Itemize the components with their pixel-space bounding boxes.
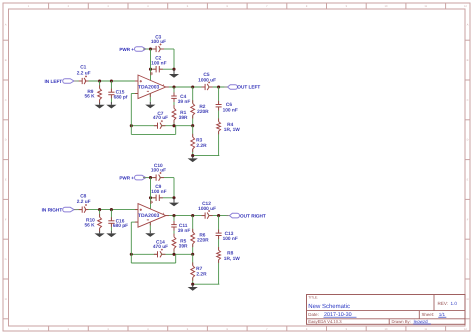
resistor R9 (56 K) (99, 81, 101, 89)
junction bottom (191, 154, 194, 157)
wire output-a (166, 215, 205, 217)
junction out-snub (217, 85, 220, 88)
svg-text:1/1: 1/1 (439, 312, 446, 317)
junction bottom (191, 283, 194, 286)
svg-text:100 uF: 100 uF (151, 168, 166, 174)
svg-text:C8: C8 (80, 193, 86, 199)
svg-text:Date:: Date: (308, 312, 319, 317)
port IN RIGHT (63, 207, 74, 212)
svg-text:G: G (466, 258, 468, 261)
wire pwr-a (143, 177, 156, 179)
svg-text:H: H (5, 298, 7, 301)
wire output-b (209, 86, 229, 88)
svg-text:220R: 220R (197, 238, 209, 244)
svg-text:R5: R5 (180, 238, 186, 244)
capacitor C8 (2.2 uF) (81, 207, 83, 213)
svg-text:H: H (467, 298, 469, 301)
svg-text:E: E (5, 179, 7, 182)
op-amp U2 (TDA2003) (138, 204, 166, 228)
junction fb-left (130, 253, 133, 256)
wire fb-loop (130, 126, 132, 135)
svg-text:B: B (467, 59, 469, 62)
junction input-C (110, 208, 113, 211)
svg-text:C: C (5, 99, 7, 102)
junction out-snub (217, 214, 220, 217)
svg-text:IN RIGHT: IN RIGHT (42, 207, 63, 212)
op-amp U1 (TDA2003) (138, 75, 166, 99)
wire input-left (74, 80, 82, 82)
junction c2-left (149, 196, 152, 199)
wire c2-row-left (151, 197, 156, 199)
wire fb-rail-right (161, 125, 193, 127)
junction input-C (110, 79, 113, 82)
svg-text:A: A (467, 24, 469, 27)
wire input-left (74, 209, 82, 211)
wire input-right (85, 80, 138, 82)
junction input-R (98, 79, 101, 82)
svg-text:Drawn By:: Drawn By: (392, 319, 411, 324)
svg-text:TDA2003: TDA2003 (138, 84, 160, 90)
wire c2-row-left (151, 68, 156, 70)
capacitor C3 (100 uF) (155, 46, 157, 52)
wire fb-loop (130, 254, 132, 263)
title block (307, 295, 466, 325)
svg-text:39R: 39R (179, 244, 188, 250)
capacitor C12 (1000 uF) (204, 213, 206, 219)
svg-text:2.2 uF: 2.2 uF (77, 70, 91, 76)
wire inv-input (131, 93, 138, 95)
svg-text:B: B (5, 59, 7, 62)
resistor R4 (1R, 1W) (218, 107, 220, 122)
svg-text:680 pf: 680 pf (114, 94, 128, 100)
junction c2-right (172, 68, 175, 71)
wire fb-rail-left (131, 253, 157, 255)
ground under R9 (99, 102, 101, 105)
svg-text:TDA2003: TDA2003 (138, 213, 160, 219)
wire inv-input (131, 221, 138, 223)
wire bottom-rail (193, 283, 220, 285)
svg-text:REV:: REV: (438, 301, 449, 306)
svg-text:C1: C1 (80, 65, 86, 71)
svg-text:R4: R4 (227, 122, 233, 128)
capacitor C1 (2.2 uF) (81, 78, 83, 84)
capacitor C10 (100 uF) (155, 175, 157, 181)
svg-text:OUT LEFT: OUT LEFT (237, 85, 260, 90)
capacitor C15 (680 pf) (110, 81, 112, 92)
svg-text:100 nF: 100 nF (223, 236, 238, 242)
junction out-zobel (172, 85, 175, 88)
svg-text:C6: C6 (226, 102, 232, 108)
svg-text:2.2 uF: 2.2 uF (77, 199, 91, 205)
svg-text:220R: 220R (197, 109, 209, 115)
ground op-amp (149, 93, 151, 101)
wire fb-rail-left (131, 125, 157, 127)
svg-text:R2: R2 (199, 104, 205, 110)
svg-text:56 K: 56 K (85, 222, 96, 228)
resistor R5 (39R) (173, 227, 175, 237)
junction out-fb (191, 214, 194, 217)
svg-text:R6: R6 (199, 233, 205, 239)
svg-text:D: D (467, 139, 469, 142)
capacitor C7 (470 uF) (157, 123, 159, 129)
svg-text:100 nF: 100 nF (151, 60, 166, 66)
capacitor C9 (100 nF) (155, 195, 157, 201)
port OUT RIGHT (230, 213, 240, 218)
svg-text:1R, 1W: 1R, 1W (224, 127, 240, 133)
svg-text:Sheet:: Sheet: (422, 312, 435, 317)
ground bottom (192, 284, 194, 287)
wire pwr-b (160, 177, 175, 179)
svg-text:2.2R: 2.2R (196, 271, 207, 277)
svg-text:C12: C12 (202, 201, 211, 207)
svg-text:G: G (5, 258, 7, 261)
svg-text:1000 uF: 1000 uF (198, 77, 216, 83)
port OUT LEFT (228, 85, 238, 90)
svg-text:470 uF: 470 uF (153, 115, 168, 121)
wire c2-row-right (160, 68, 175, 70)
svg-text:100 nF: 100 nF (223, 108, 238, 114)
svg-text:56 K: 56 K (85, 94, 96, 100)
junction c2-right (172, 196, 175, 199)
svg-text:leowzd: leowzd (414, 319, 429, 324)
capacitor C13 (100 nF) (218, 216, 220, 234)
junction fb-r1 (172, 253, 175, 256)
ground op-amp (149, 222, 151, 230)
svg-text:IN LEFT: IN LEFT (44, 79, 62, 84)
svg-text:R7: R7 (196, 266, 202, 272)
junction out-zobel (172, 214, 175, 217)
port IN LEFT (63, 79, 74, 84)
ground pwr-caps (173, 69, 175, 74)
wire output-a (166, 86, 205, 88)
svg-text:R1: R1 (180, 110, 186, 116)
svg-text:D: D (5, 139, 7, 142)
junction fb-left (130, 124, 133, 127)
wire pwr-vertical (150, 49, 152, 80)
svg-text:680 pF: 680 pF (113, 223, 128, 229)
svg-text:1000 uF: 1000 uF (198, 206, 216, 212)
wire pwr-vertical (150, 178, 152, 209)
capacitor C6 (100 nF) (218, 87, 220, 105)
resistor R7 (2.2R) (192, 254, 194, 265)
ground under C15 (110, 102, 112, 105)
svg-text:1R, 1W: 1R, 1W (224, 256, 240, 262)
svg-text:C: C (467, 99, 469, 102)
resistor R6 (220R) (192, 216, 194, 232)
capacitor C16 (680 pF) (110, 210, 112, 221)
svg-text:2.2R: 2.2R (196, 143, 207, 149)
svg-text:TITLE:: TITLE: (308, 295, 318, 299)
junction fb-r1 (172, 124, 175, 127)
svg-text:EasyEDA V4.10.3: EasyEDA V4.10.3 (308, 319, 342, 324)
svg-text:A: A (5, 24, 7, 27)
svg-text:R3: R3 (196, 137, 202, 143)
svg-text:1.0: 1.0 (451, 301, 458, 306)
junction fb-r2 (191, 253, 194, 256)
ground under R10 (99, 231, 101, 234)
svg-text:100 uF: 100 uF (151, 39, 166, 45)
wire output-b (209, 215, 229, 217)
svg-text:39R: 39R (179, 115, 188, 121)
wire pwr-a (143, 48, 156, 50)
resistor R3 (2.2R) (192, 126, 194, 137)
component pin stubs (79, 80, 83, 82)
junction input-R (98, 208, 101, 211)
junction pwr (149, 47, 152, 50)
resistor R10 (56 K) (99, 210, 101, 218)
capacitor C4 (39 nF) (173, 87, 175, 96)
svg-text:New Schematic: New Schematic (308, 303, 350, 310)
resistor R1 (39R) (173, 98, 175, 108)
resistor R8 (1R, 1W) (218, 236, 220, 251)
wire input-right (85, 209, 138, 211)
wire bottom-rail (193, 155, 220, 157)
junction fb-r2 (191, 124, 194, 127)
svg-text:100 nF: 100 nF (151, 189, 166, 195)
wire c2-row-right (160, 197, 175, 199)
capacitor C14 (470 uF) (157, 251, 159, 257)
capacitor C2 (100 nF) (155, 66, 157, 72)
ground bottom (192, 156, 194, 159)
wire pwr-b (160, 48, 175, 50)
capacitor C11 (39 nF) (173, 216, 175, 225)
wire fb-rail-right (161, 253, 193, 255)
junction pwr (149, 176, 152, 179)
resistor R2 (220R) (192, 87, 194, 103)
svg-text:C5: C5 (203, 72, 209, 78)
svg-text:OUT RIGHT: OUT RIGHT (240, 213, 266, 218)
svg-text:39 nF: 39 nF (178, 228, 191, 234)
junction c2-left (149, 68, 152, 71)
port PWR+ (135, 175, 146, 180)
svg-text:39 nF: 39 nF (178, 99, 191, 105)
junction out-fb (191, 85, 194, 88)
svg-text:R8: R8 (227, 251, 233, 257)
svg-text:C13: C13 (225, 231, 234, 237)
component pin stubs (79, 209, 83, 211)
svg-text:E: E (467, 179, 469, 182)
ground pwr-caps (173, 198, 175, 203)
svg-text:PWR +: PWR + (119, 47, 134, 52)
svg-text:470 uF: 470 uF (153, 244, 168, 250)
capacitor C5 (1000 uF) (204, 84, 206, 90)
port PWR+ (135, 47, 146, 52)
ground under C16 (110, 231, 112, 234)
svg-text:PWR +: PWR + (119, 175, 134, 180)
